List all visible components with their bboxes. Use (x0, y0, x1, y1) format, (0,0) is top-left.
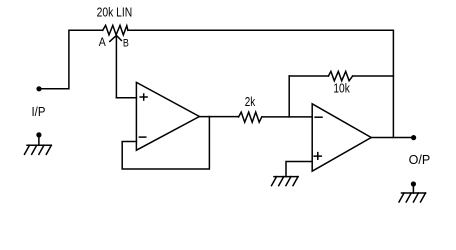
wire top rail from pot B terminal to right side down to output (128, 30, 394, 137)
wire U2 non-inverting input to ground (286, 162, 312, 177)
op-amp U2 triangle (312, 104, 371, 171)
wire feedback tap up to R3 level (288, 76, 290, 117)
potentiometer R1 20k LIN body (103, 25, 128, 35)
op-amp U2 plus symbol (314, 153, 321, 160)
op-amp U1 triangle (136, 82, 199, 150)
op-amp U1 minus symbol (139, 136, 145, 138)
wire wiper to U1 + input (116, 97, 136, 99)
wire I/P to potentiometer left terminal (39, 30, 103, 89)
svg-text:A: A (99, 36, 106, 49)
potentiometer R1 wiper arrow (110, 35, 122, 97)
node input reference dot (36, 132, 41, 137)
svg-text:10k: 10k (333, 82, 350, 96)
op-amp U1 plus symbol (140, 94, 147, 100)
resistor R3 10k body (328, 71, 352, 80)
svg-text:2k: 2k (245, 95, 256, 109)
op-amp U2 minus symbol (315, 116, 322, 118)
wire R3 left lead (289, 75, 328, 77)
wire U2 output to O/P terminal (371, 137, 413, 139)
wire U1 feedback loop (output to inverting input) (122, 117, 209, 170)
resistor R2 2k body (239, 112, 262, 122)
ground under U2 non-inverting input (272, 177, 299, 186)
wire R2 to U2 inverting input (262, 116, 312, 118)
node I/P terminal dot (36, 86, 41, 91)
wire R3 right lead to output rail (353, 75, 394, 77)
node output reference dot (411, 181, 416, 186)
node O/P terminal dot (411, 135, 416, 140)
ground under O/P terminal (399, 184, 426, 202)
svg-text:I/P: I/P (32, 105, 46, 119)
wire U1 output to resistor R2 (199, 116, 238, 118)
ground under I/P terminal (25, 135, 52, 154)
svg-text:20k LIN: 20k LIN (97, 5, 133, 19)
svg-text:O/P: O/P (409, 153, 431, 167)
svg-text:B: B (123, 37, 129, 49)
